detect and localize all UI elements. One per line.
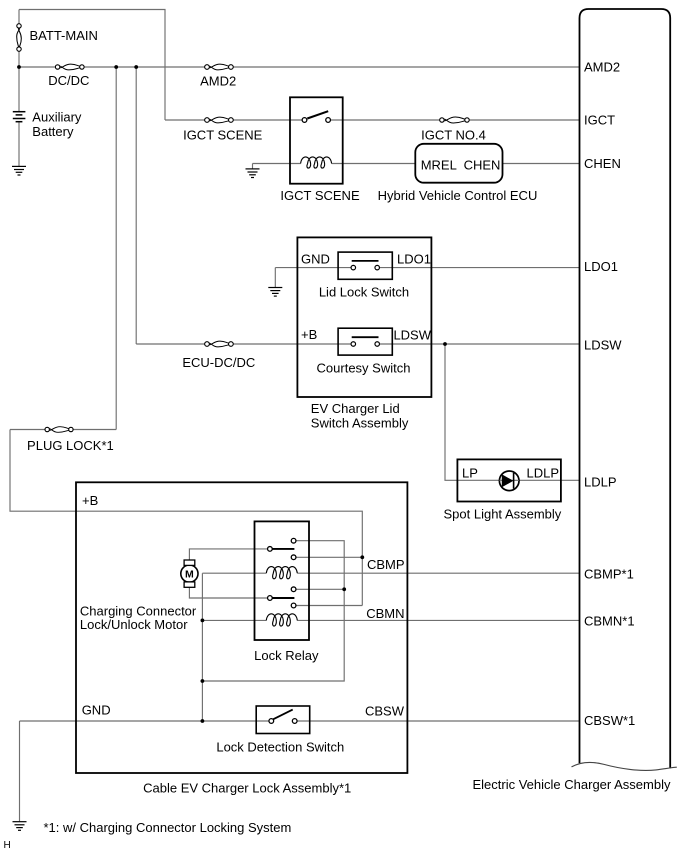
switch Lock Detection Switch [269, 710, 297, 724]
svg-text:+B: +B [82, 493, 98, 508]
svg-text:ECU-DC/DC: ECU-DC/DC [182, 355, 255, 370]
svg-text:IGCT SCENE: IGCT SCENE [280, 188, 360, 203]
svg-text:CBSW*1: CBSW*1 [584, 713, 635, 728]
wire motor top to switch1 [189, 549, 267, 560]
svg-text:H: H [4, 840, 11, 851]
svg-text:LDLP: LDLP [584, 475, 617, 490]
wire motor bottom to switch2 [189, 587, 267, 598]
wire CBMP row y=572.5 [202, 572, 579, 574]
fuse PLUG LOCK*1 [45, 427, 73, 433]
svg-text:Spot Light Assembly: Spot Light Assembly [444, 507, 562, 522]
wire GND to ground [19, 721, 21, 821]
svg-text:CBMN: CBMN [366, 606, 404, 621]
svg-text:AMD2: AMD2 [200, 73, 236, 88]
svg-text:IGCT NO.4: IGCT NO.4 [421, 127, 486, 142]
svg-text:CBSW: CBSW [365, 704, 405, 719]
wire coil ground vertical x=202.4 [201, 573, 203, 721]
svg-text:CBMN*1: CBMN*1 [584, 614, 635, 629]
relay IGCT SCENE switch [302, 111, 330, 122]
svg-text:Courtesy Switch: Courtesy Switch [317, 360, 411, 375]
svg-text:+B: +B [301, 327, 317, 342]
svg-text:Lock Relay: Lock Relay [254, 648, 319, 663]
svg-text:LDLP: LDLP [526, 466, 559, 481]
svg-text:BATT-MAIN: BATT-MAIN [30, 28, 98, 43]
torn edge Electric Vehicle Charger Assembly [572, 762, 677, 770]
svg-text:IGCT SCENE: IGCT SCENE [183, 128, 263, 143]
svg-text:CBMP*1: CBMP*1 [584, 567, 634, 582]
wire IGCT row y=120 [165, 119, 580, 121]
junction dot ground rail [201, 679, 205, 683]
wire bus branch vertical x=136.2 [135, 67, 137, 344]
ground IGCT SCENE relay coil [246, 169, 260, 178]
junction dot switch2 upper [342, 587, 346, 591]
ground bottom left GND [13, 822, 27, 831]
junction dot bus branch 2 [134, 65, 138, 69]
lamp spot light [499, 471, 519, 491]
wire top from BATT-MAIN to right vertical [19, 10, 165, 121]
ground auxiliary battery [12, 166, 26, 175]
box Lid Lock Switch [338, 252, 392, 279]
wire LDSW / ECU-DC/DC row y=344 [136, 343, 579, 345]
fusible link BATT-MAIN [17, 24, 22, 52]
fuse DC/DC [55, 64, 84, 70]
junction dot coil2 ground [201, 619, 205, 623]
wire CBMN row y=621 [202, 619, 579, 621]
box relay IGCT SCENE [290, 97, 343, 183]
fuse AMD2 [205, 64, 234, 70]
wire bus branch vertical x=116.2 [115, 67, 117, 430]
svg-text:IGCT: IGCT [584, 113, 615, 128]
wire LDO1 row y=267.6 [275, 267, 579, 269]
box Courtesy Switch [338, 328, 392, 355]
coil lock relay 2 [266, 614, 297, 626]
svg-text:CBMP: CBMP [367, 557, 405, 572]
motor Charging Connector Lock/Unlock Motor [181, 560, 198, 587]
svg-text:MREL: MREL [421, 158, 457, 173]
wire CHEN coil row y=163.5 [253, 163, 580, 165]
svg-text:Hybrid Vehicle Control ECU: Hybrid Vehicle Control ECU [378, 188, 538, 203]
svg-text:DC/DC: DC/DC [48, 73, 89, 88]
coil lock relay 1 [266, 567, 297, 579]
junction dot bus at battery [17, 65, 21, 69]
box Cable EV Charger Lock Assembly [76, 482, 407, 773]
svg-text:GND: GND [301, 252, 330, 267]
junction dot +B switch1 [360, 555, 364, 559]
svg-text:PLUG LOCK*1: PLUG LOCK*1 [27, 438, 114, 453]
box Lock Relay [255, 521, 310, 640]
svg-text:CHEN: CHEN [464, 158, 501, 173]
fuse IGCT SCENE [205, 117, 234, 123]
wire GND / CBSW row y=721 [20, 720, 580, 722]
relay lock relay switch 1 [268, 538, 296, 559]
fuse ECU-DC/DC [205, 341, 234, 347]
svg-text:LDO1: LDO1 [397, 251, 431, 266]
wire switch2 lower stub [296, 605, 363, 607]
junction dot bus branch 1 [114, 65, 118, 69]
box Lock Detection Switch [256, 706, 310, 734]
ECU Hybrid Vehicle Control ECU (MREL/CHEN) [415, 144, 502, 183]
wire main bus y=67 [19, 66, 580, 68]
relay IGCT SCENE coil [301, 157, 332, 168]
switch Courtesy Switch [351, 337, 379, 346]
fuse IGCT NO.4 [440, 117, 470, 123]
junction dot GND row [201, 719, 205, 723]
svg-text:Electric Vehicle Charger Assem: Electric Vehicle Charger Assembly [473, 777, 671, 792]
junction dot LDSW spot light [443, 342, 447, 346]
wire IGCT relay ground stub [252, 164, 254, 169]
wire switch1 upper to ground rail [202, 541, 344, 681]
svg-text:Lock/Unlock Motor: Lock/Unlock Motor [80, 617, 188, 632]
wire battery branch vertical x=19 [18, 10, 20, 167]
wire LDSW junction to spot light [445, 344, 457, 480]
svg-text:*1: w/ Charging Connector Lock: *1: w/ Charging Connector Locking System [44, 820, 292, 835]
switch Lid Lock Switch [351, 261, 379, 270]
svg-text:LDO1: LDO1 [584, 259, 618, 274]
svg-text:EV Charger Lid: EV Charger Lid [311, 401, 400, 416]
svg-text:Lid Lock Switch: Lid Lock Switch [319, 284, 409, 299]
svg-text:GND: GND [82, 703, 111, 718]
relay lock relay switch 2 [268, 587, 296, 608]
wire switch1 lower stub [296, 556, 363, 558]
wire LDLP row through lamp [457, 479, 579, 481]
svg-text:AMD2: AMD2 [584, 59, 620, 74]
svg-text:Lock Detection Switch: Lock Detection Switch [216, 740, 344, 755]
battery Auxiliary Battery [13, 112, 26, 122]
box EV Charger Lid Switch Assembly [297, 237, 431, 397]
svg-text:LDSW: LDSW [584, 337, 622, 352]
svg-text:LP: LP [462, 466, 478, 481]
box Electric Vehicle Charger Assembly [580, 9, 671, 768]
wire PLUG LOCK row y=429.5 [10, 429, 116, 431]
wire +B feed left [10, 430, 362, 606]
wire lid ground stub [274, 268, 276, 288]
box Spot Light Assembly [457, 459, 561, 501]
svg-text:Auxiliary: Auxiliary [32, 110, 82, 125]
svg-text:Cable EV Charger Lock Assembly: Cable EV Charger Lock Assembly*1 [143, 781, 351, 796]
svg-text:CHEN: CHEN [584, 156, 621, 171]
wire switch2 upper stub [296, 588, 344, 590]
svg-text:LDSW: LDSW [393, 327, 431, 342]
svg-text:M: M [185, 569, 194, 581]
svg-text:Switch Assembly: Switch Assembly [311, 415, 409, 430]
svg-text:Battery: Battery [32, 124, 74, 139]
ground lid lock switch [268, 288, 282, 297]
